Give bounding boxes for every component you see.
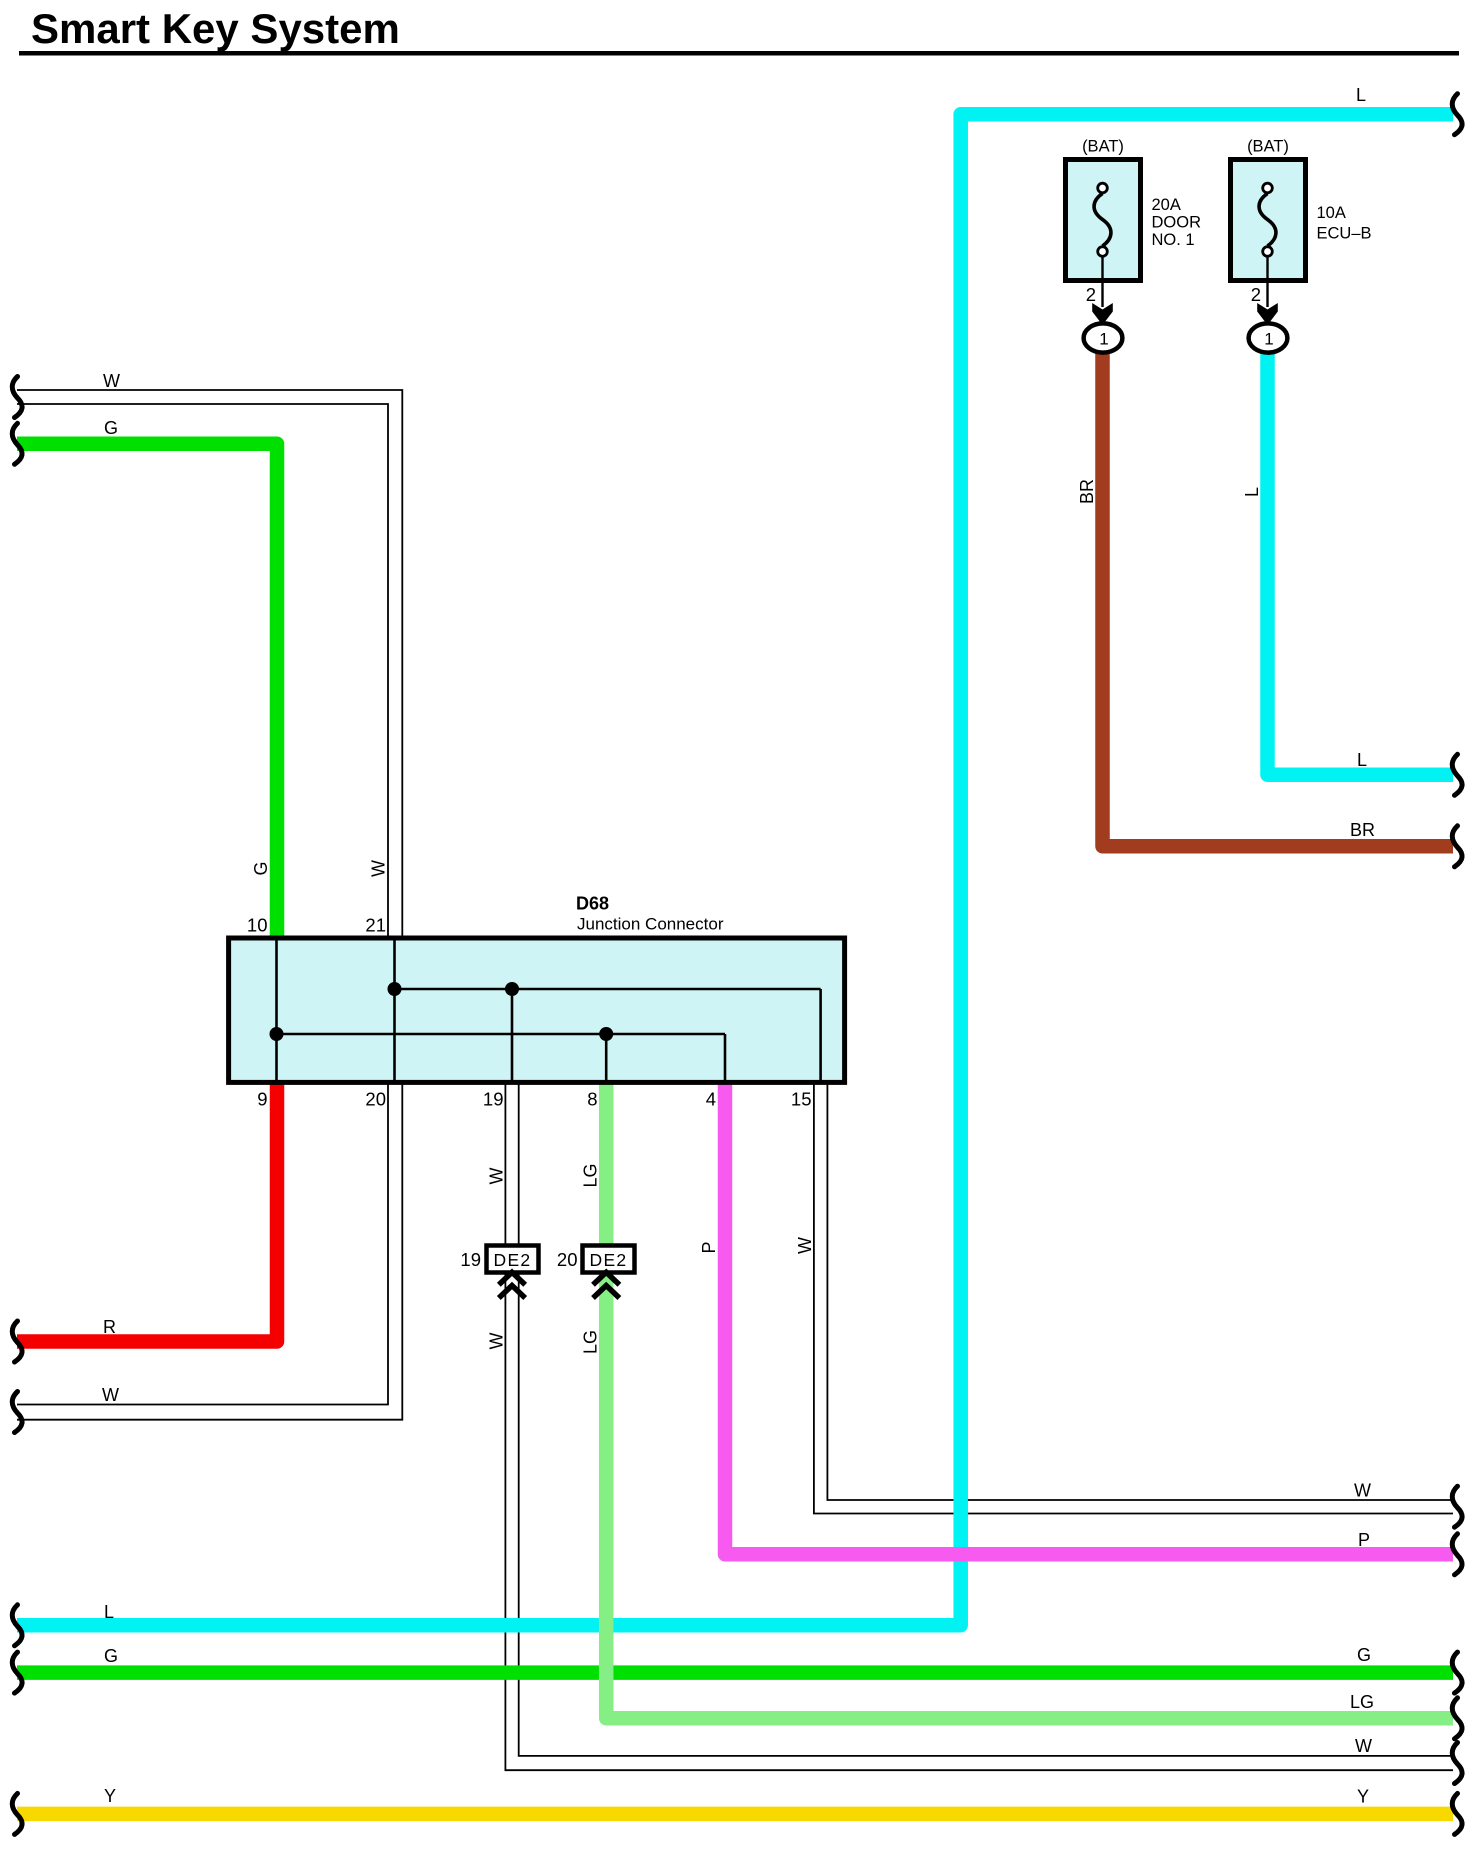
svg-text:21: 21	[365, 915, 386, 936]
svg-text:2: 2	[1251, 284, 1261, 305]
wire L top horizontal + vertical + bottom left	[17, 114, 1453, 1625]
fuse F2 lead line	[1266, 257, 1268, 308]
svg-text:10A: 10A	[1317, 204, 1346, 222]
svg-text:19: 19	[460, 1249, 481, 1270]
svg-text:Y: Y	[104, 1786, 116, 1806]
svg-text:ECU–B: ECU–B	[1317, 225, 1372, 243]
svg-text:G: G	[104, 1646, 118, 1666]
break symbol right LG	[1452, 1698, 1462, 1739]
svg-text:4: 4	[706, 1089, 716, 1110]
fuse F2 connector circle 1	[1249, 323, 1288, 352]
break symbol right W lower	[1452, 1743, 1462, 1784]
svg-text:9: 9	[257, 1089, 267, 1110]
title underline	[19, 51, 1459, 56]
fuse F1 connector circle 1	[1084, 323, 1123, 352]
junction node at 21 branch	[388, 982, 402, 996]
svg-text:(BAT): (BAT)	[1082, 138, 1124, 156]
break symbol left R	[12, 1321, 22, 1362]
svg-text:DE2: DE2	[590, 1250, 628, 1270]
fuse F1 arrow	[1092, 303, 1113, 325]
break symbol right L mid	[1452, 754, 1462, 795]
svg-text:L: L	[1356, 85, 1366, 105]
break symbol right L top	[1452, 94, 1462, 135]
svg-text:G: G	[1357, 1645, 1371, 1665]
svg-text:P: P	[699, 1241, 719, 1253]
connector DE2 pin 20 box	[583, 1246, 635, 1273]
fuse F1 element curve	[1094, 194, 1111, 247]
connector DE2 pin 19 box	[487, 1246, 539, 1273]
svg-text:19: 19	[483, 1089, 504, 1110]
wire P junction pin 4 to right	[725, 1082, 1453, 1554]
svg-text:1: 1	[1099, 330, 1108, 349]
wire W pin19 to bottom right (outer line)	[505, 1082, 1453, 1770]
svg-text:W: W	[1354, 1481, 1371, 1501]
fuse F2 bottom terminal circle	[1263, 247, 1273, 257]
internal wire pin21-pin20	[393, 938, 396, 1082]
svg-text:20: 20	[365, 1089, 386, 1110]
internal wire pin15 branch	[819, 989, 822, 1082]
wire W pin15 to right (inner line)	[827, 1082, 1453, 1500]
svg-text:1: 1	[1264, 330, 1273, 349]
svg-text:BR: BR	[1350, 820, 1375, 840]
DE2 chevron 20	[593, 1272, 619, 1298]
svg-text:8: 8	[587, 1089, 597, 1110]
internal wire pin4 branch	[724, 1034, 727, 1082]
fuse F2 element curve	[1259, 194, 1276, 247]
fuse F2 top terminal circle	[1263, 183, 1273, 193]
break symbol left G	[12, 423, 22, 464]
fuse F1 bottom terminal circle	[1098, 247, 1108, 257]
internal wire pin10-pin9	[275, 938, 278, 1082]
fuse F1 20A DOOR NO.1 box	[1066, 160, 1141, 281]
svg-text:20A: 20A	[1152, 196, 1181, 214]
svg-text:(BAT): (BAT)	[1247, 138, 1289, 156]
internal wire horizontal lower	[277, 1033, 726, 1036]
svg-text:W: W	[369, 860, 389, 877]
fuse F2 10A ECU-B box	[1231, 160, 1306, 281]
break symbol right P	[1452, 1534, 1462, 1575]
svg-text:W: W	[487, 1333, 507, 1350]
DE2 chevron 19	[499, 1272, 525, 1298]
svg-text:G: G	[104, 418, 118, 438]
svg-text:Smart Key System: Smart Key System	[31, 5, 400, 52]
junction node at 8 branch	[599, 1027, 613, 1041]
break symbol left W bottom	[12, 1392, 22, 1433]
svg-text:LG: LG	[581, 1163, 601, 1187]
junction node at 19 branch	[505, 982, 519, 996]
wire L from fuse ECU-B	[1268, 350, 1454, 775]
break symbol left L	[12, 1605, 22, 1646]
wire G bottom horizontal	[17, 1665, 1453, 1680]
break symbol right Y	[1452, 1793, 1462, 1834]
svg-text:W: W	[795, 1237, 815, 1254]
junction node at 10 branch	[270, 1027, 284, 1041]
wire R junction pin 9 to left	[17, 1082, 277, 1342]
svg-text:LG: LG	[581, 1330, 601, 1354]
internal wire pin19 branch	[511, 989, 514, 1082]
fuse F1 top terminal circle	[1098, 183, 1108, 193]
svg-text:R: R	[103, 1317, 116, 1337]
svg-text:20: 20	[557, 1249, 578, 1270]
svg-text:10: 10	[247, 915, 268, 936]
fuse F2 arrow	[1257, 303, 1278, 325]
svg-text:2: 2	[1086, 284, 1096, 305]
svg-text:W: W	[1355, 1736, 1372, 1756]
break symbol left Y	[12, 1793, 22, 1834]
fuse F1 lead line	[1101, 257, 1103, 308]
internal wire pin8 branch	[605, 1034, 608, 1082]
svg-text:L: L	[104, 1602, 114, 1622]
internal wire horizontal upper	[395, 988, 821, 991]
wire W left loop (outer line)	[17, 390, 402, 1420]
svg-text:DE2: DE2	[494, 1250, 532, 1270]
svg-text:15: 15	[791, 1089, 812, 1110]
svg-text:DOOR: DOOR	[1152, 214, 1202, 232]
svg-text:LG: LG	[1350, 1692, 1374, 1712]
svg-text:L: L	[1242, 487, 1262, 497]
svg-text:BR: BR	[1077, 479, 1097, 504]
junction connector D68 box	[229, 938, 845, 1082]
svg-text:Junction Connector: Junction Connector	[577, 915, 724, 934]
svg-text:W: W	[487, 1168, 507, 1185]
break symbol left W top	[12, 377, 22, 418]
break symbol left G bottom	[12, 1652, 22, 1693]
wire W pin15 to right (outer line)	[814, 1082, 1453, 1514]
wire W pin19 to bottom right (inner line)	[519, 1082, 1453, 1756]
svg-text:G: G	[251, 861, 271, 875]
svg-text:NO. 1: NO. 1	[1152, 231, 1195, 249]
svg-text:D68: D68	[576, 894, 609, 914]
break symbol right W upper	[1452, 1486, 1462, 1527]
svg-text:Y: Y	[1357, 1787, 1369, 1807]
break symbol right BR	[1452, 826, 1462, 867]
svg-text:W: W	[102, 1385, 119, 1405]
break symbol right G	[1452, 1652, 1462, 1693]
wire W left loop (inner line)	[17, 404, 388, 1405]
wire G top left to junction pin 10	[17, 444, 277, 940]
svg-text:P: P	[1358, 1530, 1370, 1550]
wire Y bottom horizontal	[17, 1807, 1453, 1822]
wire BR from fuse DOOR NO.1	[1103, 350, 1454, 846]
wire LG junction pin 8 to bottom right	[606, 1082, 1453, 1718]
svg-text:L: L	[1357, 750, 1367, 770]
svg-text:W: W	[103, 371, 120, 391]
